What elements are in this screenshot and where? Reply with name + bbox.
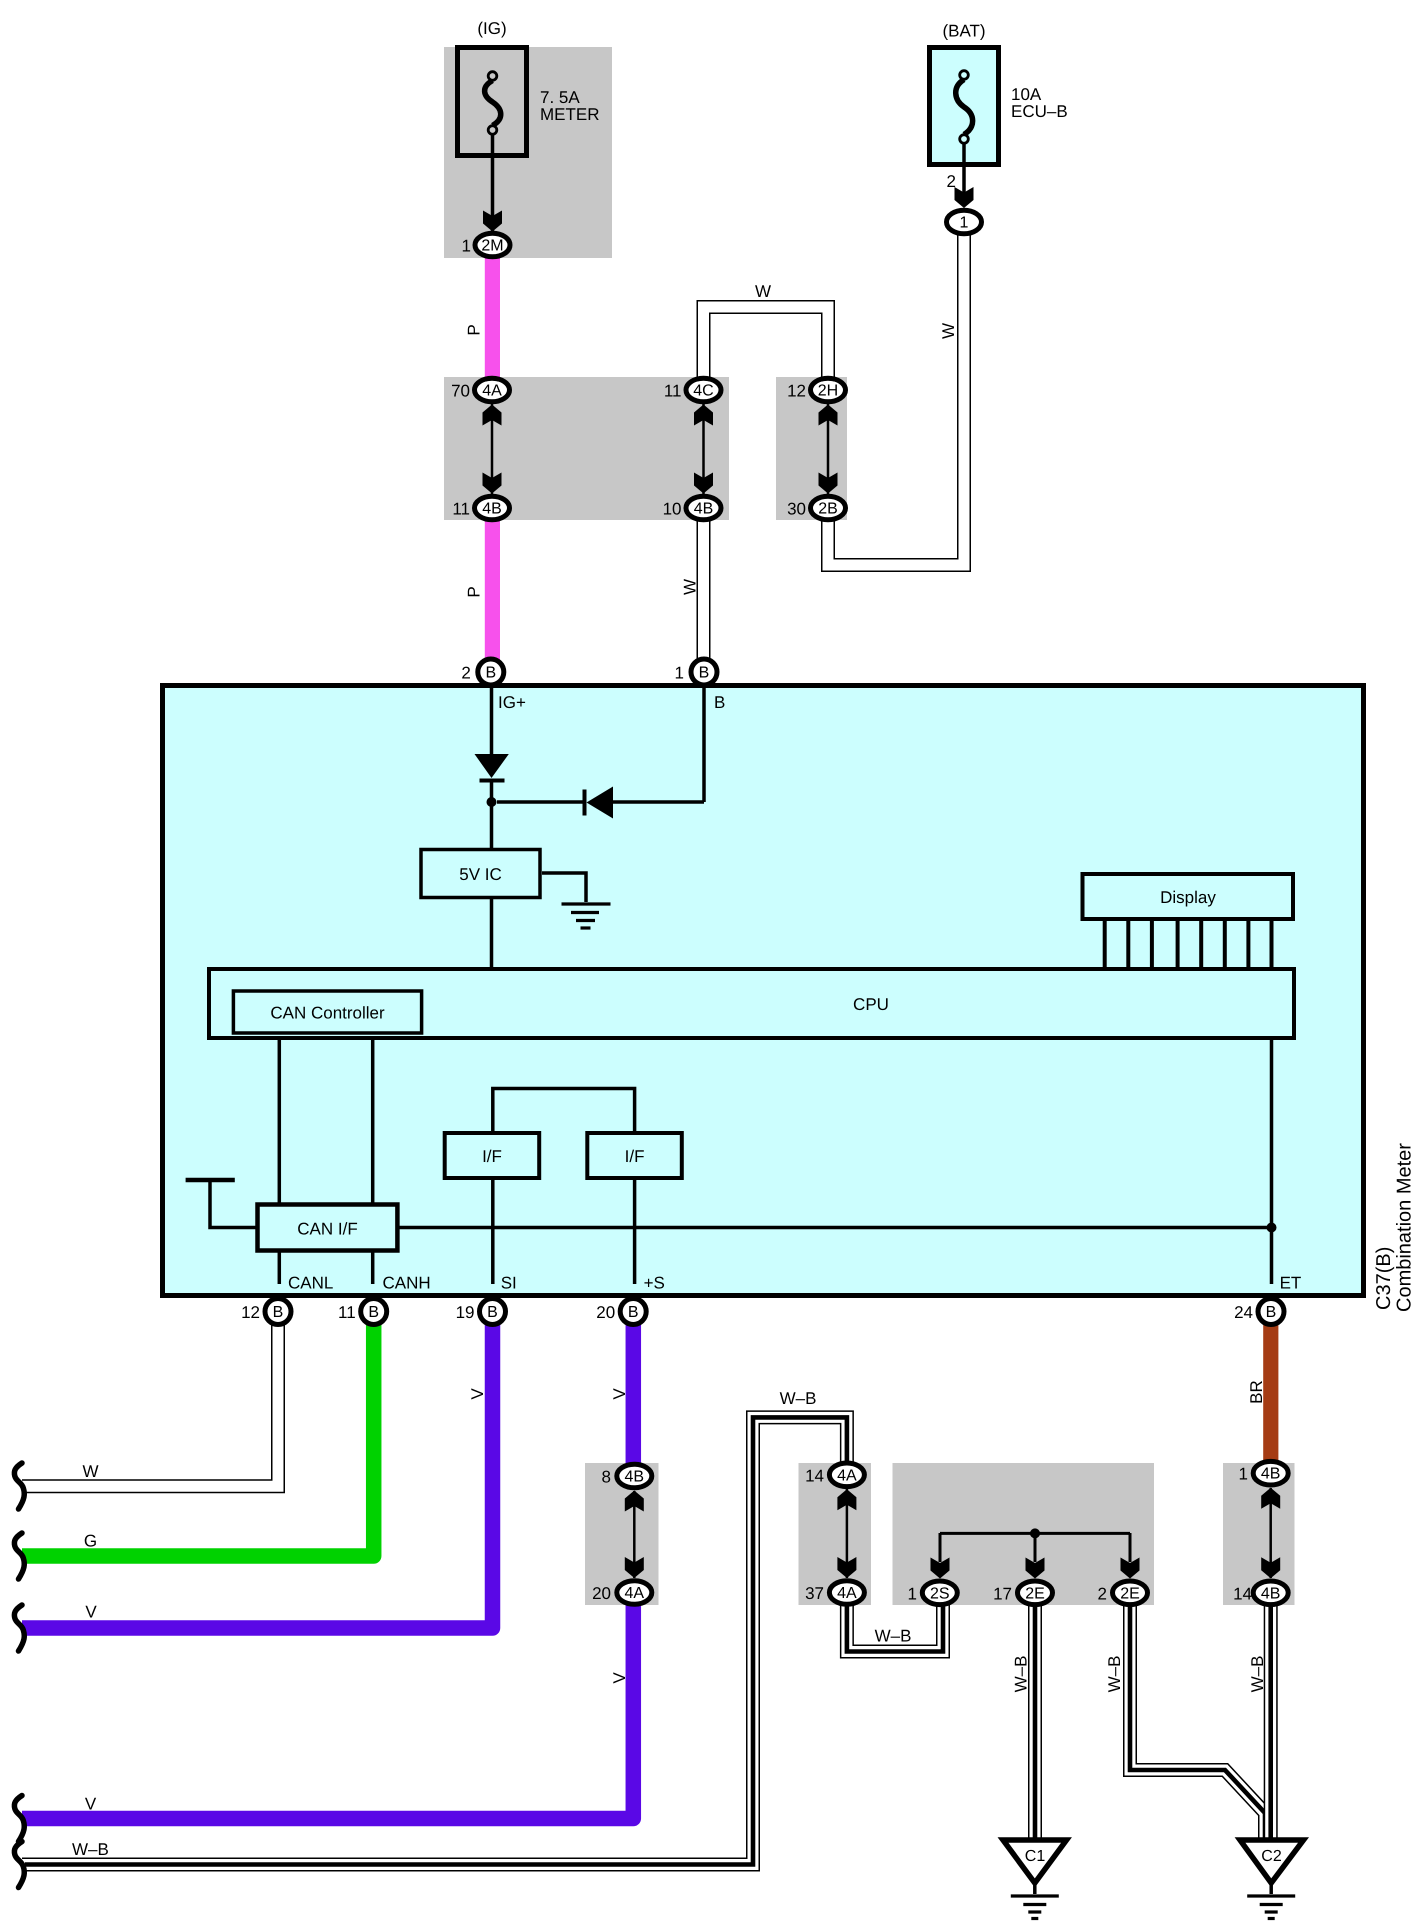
svg-text:2: 2 <box>461 664 470 683</box>
svg-text:C37(B): C37(B) <box>1373 1247 1395 1310</box>
svg-text:W–B: W–B <box>1012 1656 1031 1693</box>
svg-text:IG+: IG+ <box>498 693 526 712</box>
svg-text:2E: 2E <box>1120 1585 1140 1602</box>
svg-text:11: 11 <box>338 1303 356 1322</box>
svg-text:Display: Display <box>1160 888 1216 907</box>
svg-text:12: 12 <box>787 382 806 401</box>
svg-text:4B: 4B <box>1261 1466 1281 1483</box>
svg-text:12: 12 <box>241 1303 260 1322</box>
svg-text:W–B: W–B <box>1248 1656 1267 1693</box>
svg-text:B: B <box>368 1304 379 1321</box>
svg-text:W–B: W–B <box>875 1627 912 1646</box>
svg-text:W: W <box>939 323 958 339</box>
svg-text:Combination Meter: Combination Meter <box>1394 1143 1416 1312</box>
svg-text:SI: SI <box>501 1274 517 1293</box>
svg-text:1: 1 <box>675 664 684 683</box>
svg-text:W: W <box>755 282 771 301</box>
svg-text:+S: +S <box>644 1274 665 1293</box>
svg-text:W: W <box>82 1462 98 1481</box>
svg-text:4B: 4B <box>625 1469 645 1486</box>
svg-text:W–B: W–B <box>1105 1656 1124 1693</box>
svg-text:B: B <box>1266 1304 1277 1321</box>
svg-text:METER: METER <box>540 105 600 124</box>
svg-text:4B: 4B <box>694 501 714 518</box>
svg-text:C1: C1 <box>1025 1848 1046 1865</box>
svg-text:2E: 2E <box>1025 1585 1045 1602</box>
svg-text:B: B <box>485 665 496 682</box>
svg-text:2: 2 <box>947 172 956 191</box>
svg-text:4B: 4B <box>1261 1585 1281 1602</box>
svg-text:10: 10 <box>663 500 682 519</box>
svg-text:CANL: CANL <box>288 1274 333 1293</box>
svg-text:V: V <box>610 1388 629 1400</box>
svg-text:ECU–B: ECU–B <box>1011 102 1068 121</box>
svg-text:20: 20 <box>592 1584 611 1603</box>
svg-text:11: 11 <box>452 500 470 519</box>
svg-text:W–B: W–B <box>72 1840 109 1859</box>
svg-text:5V IC: 5V IC <box>459 865 502 884</box>
svg-text:C2: C2 <box>1261 1848 1282 1865</box>
svg-text:70: 70 <box>451 382 470 401</box>
svg-text:14: 14 <box>805 1466 824 1485</box>
svg-text:4C: 4C <box>693 383 713 400</box>
svg-text:19: 19 <box>456 1303 475 1322</box>
svg-text:CAN I/F: CAN I/F <box>297 1219 357 1238</box>
svg-text:W: W <box>681 579 700 595</box>
svg-text:W–B: W–B <box>780 1389 817 1408</box>
svg-text:G: G <box>84 1532 97 1551</box>
svg-text:30: 30 <box>787 500 806 519</box>
svg-text:37: 37 <box>805 1584 824 1603</box>
svg-text:4A: 4A <box>482 383 502 400</box>
svg-text:1: 1 <box>1239 1465 1248 1484</box>
svg-text:B: B <box>273 1304 284 1321</box>
svg-text:I/F: I/F <box>625 1147 645 1166</box>
svg-text:P: P <box>465 586 484 597</box>
svg-text:B: B <box>487 1304 498 1321</box>
svg-text:CAN Controller: CAN Controller <box>270 1004 385 1023</box>
svg-text:14: 14 <box>1233 1584 1252 1603</box>
svg-text:V: V <box>85 1795 97 1814</box>
svg-text:V: V <box>468 1388 487 1400</box>
svg-text:B: B <box>714 693 725 712</box>
svg-text:CANH: CANH <box>383 1274 431 1293</box>
svg-text:8: 8 <box>602 1468 611 1487</box>
svg-text:I/F: I/F <box>482 1147 502 1166</box>
svg-text:B: B <box>699 665 710 682</box>
svg-text:1: 1 <box>908 1584 917 1603</box>
svg-text:4A: 4A <box>625 1585 645 1602</box>
svg-text:2S: 2S <box>930 1585 950 1602</box>
svg-text:(IG): (IG) <box>477 19 506 38</box>
svg-text:4A: 4A <box>837 1467 857 1484</box>
svg-text:CPU: CPU <box>853 995 889 1014</box>
svg-text:1: 1 <box>960 215 969 232</box>
svg-text:4B: 4B <box>482 501 502 518</box>
svg-text:11: 11 <box>664 382 682 401</box>
svg-text:2H: 2H <box>818 383 838 400</box>
svg-text:20: 20 <box>596 1303 615 1322</box>
svg-text:ET: ET <box>1280 1274 1302 1293</box>
svg-text:BR: BR <box>1247 1380 1266 1404</box>
svg-text:17: 17 <box>993 1584 1012 1603</box>
svg-text:V: V <box>610 1672 629 1684</box>
svg-text:B: B <box>628 1304 639 1321</box>
svg-text:P: P <box>465 324 484 335</box>
svg-text:24: 24 <box>1234 1303 1253 1322</box>
svg-text:V: V <box>85 1603 97 1622</box>
svg-text:(BAT): (BAT) <box>942 22 985 41</box>
svg-text:4A: 4A <box>837 1585 857 1602</box>
svg-text:2M: 2M <box>481 238 503 255</box>
svg-text:2B: 2B <box>818 501 838 518</box>
svg-text:2: 2 <box>1098 1584 1107 1603</box>
svg-text:1: 1 <box>462 237 471 256</box>
